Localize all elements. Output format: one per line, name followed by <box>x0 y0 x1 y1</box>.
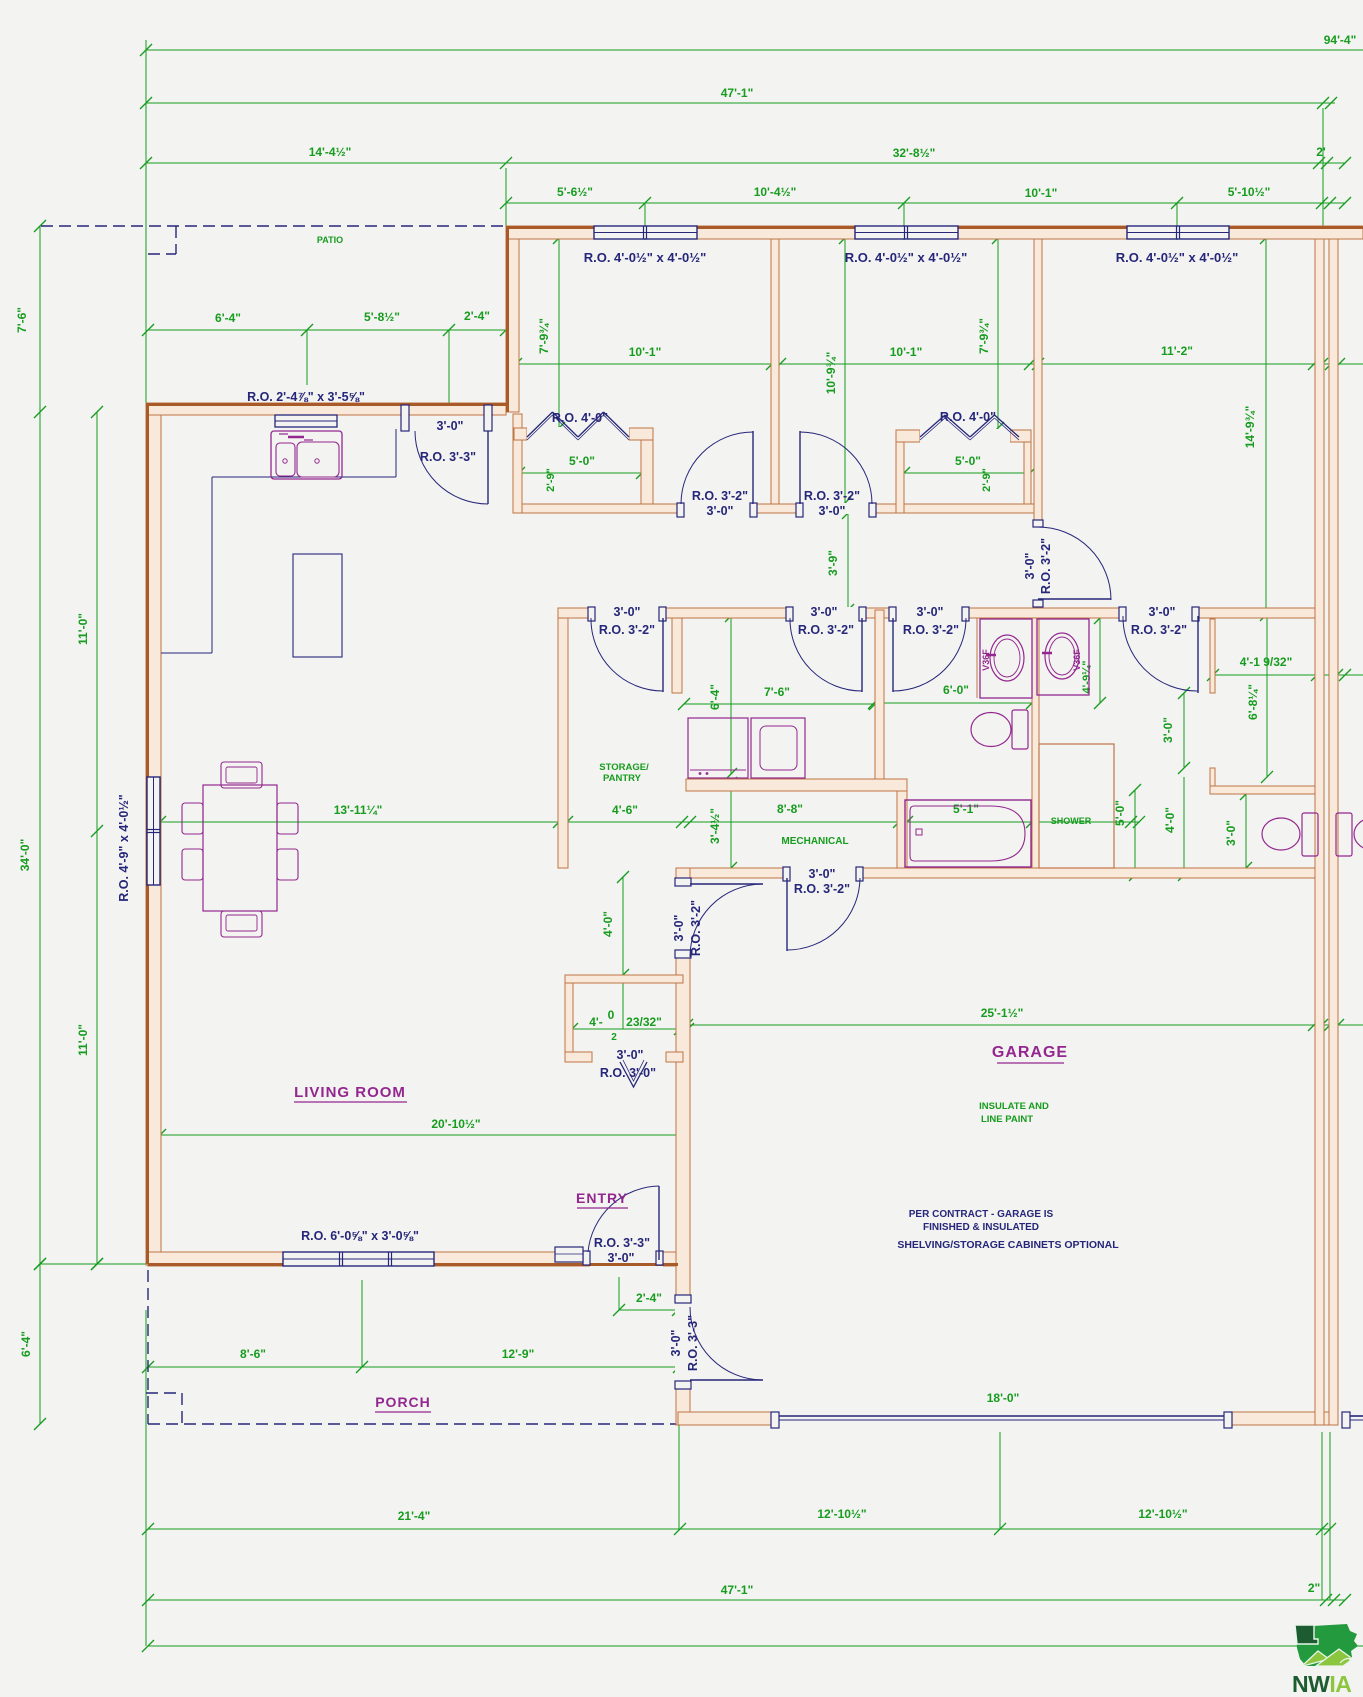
svg-text:PORCH: PORCH <box>375 1394 431 1410</box>
svg-text:3'-0": 3'-0" <box>608 1251 635 1265</box>
svg-text:10'-1": 10'-1" <box>1025 186 1058 200</box>
svg-text:21'-4": 21'-4" <box>398 1509 431 1523</box>
svg-text:7'-6": 7'-6" <box>15 307 29 333</box>
svg-text:10'-1": 10'-1" <box>629 345 662 359</box>
svg-text:R.O. 3'-2": R.O. 3'-2" <box>794 882 850 896</box>
svg-text:R.O. 4'-0": R.O. 4'-0" <box>552 411 608 425</box>
svg-text:7'-9¾": 7'-9¾" <box>977 318 991 354</box>
svg-text:34'-0": 34'-0" <box>18 839 32 872</box>
svg-text:32'-8½": 32'-8½" <box>893 146 936 160</box>
svg-text:11'-0": 11'-0" <box>76 1024 90 1056</box>
svg-text:R.O. 3'-3": R.O. 3'-3" <box>686 1315 700 1371</box>
svg-text:3'-0": 3'-0" <box>811 605 838 619</box>
svg-text:20'-10½": 20'-10½" <box>431 1117 480 1131</box>
svg-text:12'-9": 12'-9" <box>502 1347 535 1361</box>
svg-text:INSULATE AND: INSULATE AND <box>979 1101 1049 1112</box>
svg-text:10'-9¾": 10'-9¾" <box>824 352 838 395</box>
svg-text:R.O. 3'-2": R.O. 3'-2" <box>599 623 655 637</box>
svg-text:R.O. 4'-0½" x 4'-0½": R.O. 4'-0½" x 4'-0½" <box>845 250 968 265</box>
svg-text:PANTRY: PANTRY <box>603 773 642 784</box>
svg-text:5'-10½": 5'-10½" <box>1228 185 1271 199</box>
svg-text:6'-4": 6'-4" <box>215 311 241 325</box>
svg-text:R.O. 3'-2": R.O. 3'-2" <box>692 489 748 503</box>
svg-text:3'-0": 3'-0" <box>1224 820 1238 846</box>
svg-text:4'-: 4'- <box>589 1015 603 1029</box>
svg-text:5'-8½": 5'-8½" <box>364 310 400 324</box>
svg-text:ENTRY: ENTRY <box>576 1190 628 1206</box>
svg-text:R.O. 3'-2": R.O. 3'-2" <box>804 489 860 503</box>
svg-text:STORAGE/: STORAGE/ <box>599 762 649 773</box>
svg-text:3'-4½": 3'-4½" <box>708 808 722 844</box>
svg-text:10'-1": 10'-1" <box>890 345 923 359</box>
svg-text:14'-9¾": 14'-9¾" <box>1243 406 1257 449</box>
svg-text:LINE PAINT: LINE PAINT <box>981 1114 1033 1125</box>
svg-text:12'-10½": 12'-10½" <box>1138 1507 1187 1521</box>
svg-text:SHELVING/STORAGE CABINETS OPTI: SHELVING/STORAGE CABINETS OPTIONAL <box>897 1239 1119 1251</box>
svg-text:R.O. 3'-2": R.O. 3'-2" <box>1039 538 1053 594</box>
svg-text:4'-1 9/32": 4'-1 9/32" <box>1240 655 1293 669</box>
svg-text:5'-1": 5'-1" <box>953 802 979 816</box>
svg-text:R.O. 3'-3": R.O. 3'-3" <box>420 450 476 464</box>
svg-text:R.O. 4'-0½" x 4'-0½": R.O. 4'-0½" x 4'-0½" <box>1116 250 1239 265</box>
svg-text:5'-6½": 5'-6½" <box>557 185 593 199</box>
svg-text:5'-0": 5'-0" <box>955 454 981 468</box>
svg-text:2': 2' <box>1316 145 1326 159</box>
svg-text:3'-0": 3'-0" <box>1149 605 1176 619</box>
svg-text:R.O. 4'-0": R.O. 4'-0" <box>940 410 996 424</box>
svg-text:2'-4": 2'-4" <box>636 1291 662 1305</box>
svg-text:8'-8": 8'-8" <box>777 802 803 816</box>
svg-text:14'-4½": 14'-4½" <box>309 145 352 159</box>
svg-text:MECHANICAL: MECHANICAL <box>781 836 848 847</box>
svg-text:3'-0": 3'-0" <box>669 1329 683 1356</box>
svg-text:3'-0": 3'-0" <box>672 914 686 941</box>
svg-text:3'-0": 3'-0" <box>437 419 464 433</box>
svg-text:3'-0": 3'-0" <box>617 1048 644 1062</box>
svg-text:18'-0": 18'-0" <box>987 1391 1020 1405</box>
svg-text:11'-2": 11'-2" <box>1161 344 1193 358</box>
svg-text:4'-6": 4'-6" <box>612 803 638 817</box>
svg-text:R.O. 3'-2": R.O. 3'-2" <box>689 900 703 956</box>
svg-text:R.O. 3'-3": R.O. 3'-3" <box>594 1236 650 1250</box>
svg-text:7'-6": 7'-6" <box>764 685 790 699</box>
svg-text:3'-0": 3'-0" <box>819 504 846 518</box>
svg-text:SHOWER: SHOWER <box>1051 816 1092 826</box>
svg-text:V36F: V36F <box>981 649 991 671</box>
svg-text:2'-4": 2'-4" <box>464 309 490 323</box>
svg-text:2'-9": 2'-9" <box>981 468 993 492</box>
svg-text:R.O. 3'-2": R.O. 3'-2" <box>903 623 959 637</box>
svg-text:13'-11¼": 13'-11¼" <box>334 803 383 817</box>
svg-text:94'-4": 94'-4" <box>1324 33 1357 47</box>
svg-text:R.O. 3'-2": R.O. 3'-2" <box>1131 623 1187 637</box>
svg-text:V36F: V36F <box>1072 649 1082 671</box>
svg-text:LIVING ROOM: LIVING ROOM <box>294 1084 406 1101</box>
svg-text:R.O. 3'-0": R.O. 3'-0" <box>600 1066 656 1080</box>
svg-text:11'-0": 11'-0" <box>76 613 90 645</box>
svg-text:7'-9¾": 7'-9¾" <box>537 318 551 354</box>
svg-text:6'-8¼": 6'-8¼" <box>1246 684 1260 720</box>
svg-text:4'-9¼": 4'-9¼" <box>1081 661 1093 694</box>
svg-text:2": 2" <box>1308 1581 1320 1595</box>
svg-text:R.O. 2'-4⅞" x 3'-5⅝": R.O. 2'-4⅞" x 3'-5⅝" <box>247 390 365 404</box>
svg-text:5'-0": 5'-0" <box>1113 800 1127 826</box>
svg-text:R.O. 3'-2": R.O. 3'-2" <box>798 623 854 637</box>
svg-text:3'-0": 3'-0" <box>1161 717 1175 743</box>
svg-text:4'-0": 4'-0" <box>1163 807 1177 833</box>
svg-text:FINISHED & INSULATED: FINISHED & INSULATED <box>923 1222 1039 1233</box>
svg-text:6'-4": 6'-4" <box>19 1331 33 1357</box>
svg-text:PER CONTRACT - GARAGE IS: PER CONTRACT - GARAGE IS <box>909 1209 1054 1220</box>
svg-text:5'-0": 5'-0" <box>569 454 595 468</box>
svg-text:3'-0": 3'-0" <box>707 504 734 518</box>
svg-text:3'-0": 3'-0" <box>1023 552 1037 579</box>
svg-text:4'-0": 4'-0" <box>601 911 615 937</box>
svg-text:3'-9": 3'-9" <box>826 550 840 576</box>
svg-text:47'-1": 47'-1" <box>721 86 754 100</box>
svg-text:12'-10½": 12'-10½" <box>817 1507 866 1521</box>
svg-text:PATIO: PATIO <box>317 235 343 245</box>
svg-text:3'-0": 3'-0" <box>917 605 944 619</box>
svg-text:R.O. 6'-0⅝" x 3'-0⅝": R.O. 6'-0⅝" x 3'-0⅝" <box>301 1229 419 1243</box>
svg-text:23/32": 23/32" <box>626 1015 662 1029</box>
svg-text:GARAGE: GARAGE <box>992 1044 1068 1061</box>
svg-text:10'-4½": 10'-4½" <box>754 185 797 199</box>
svg-text:47'-1": 47'-1" <box>721 1583 754 1597</box>
svg-text:NWIA: NWIA <box>1292 1671 1351 1697</box>
svg-text:0: 0 <box>608 1008 615 1022</box>
svg-text:R.O. 4'-0½" x 4'-0½": R.O. 4'-0½" x 4'-0½" <box>584 250 707 265</box>
svg-text:25'-1½": 25'-1½" <box>981 1006 1024 1020</box>
svg-text:8'-6": 8'-6" <box>240 1347 266 1361</box>
svg-text:2: 2 <box>611 1032 617 1043</box>
svg-text:6'-0": 6'-0" <box>943 683 969 697</box>
svg-text:R.O. 4'-9" x 4'-0½": R.O. 4'-9" x 4'-0½" <box>117 794 131 901</box>
svg-text:3'-0": 3'-0" <box>614 605 641 619</box>
svg-text:6'-4": 6'-4" <box>708 684 722 710</box>
svg-text:3'-0": 3'-0" <box>809 867 836 881</box>
svg-text:2'-9": 2'-9" <box>545 468 557 492</box>
